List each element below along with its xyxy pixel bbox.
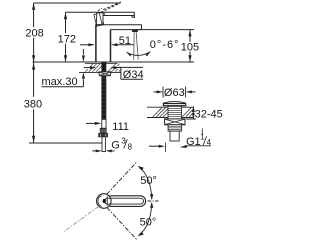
svg-text:51: 51 [119,35,131,47]
arrow down 32-45 [192,113,195,119]
G1 1/4 underline leader [186,145,211,147]
plan view lower-left centerline arm [64,206,99,231]
Ø63 arrow right [192,91,196,93]
drain tube arrow [149,145,159,147]
drain tube extension line [165,143,167,153]
svg-text:172: 172 [58,33,76,45]
drain deck hatching [153,108,194,117]
wire: max.30 underline [42,86,84,88]
dimension max.30 upper arrow [82,49,84,55]
faucet aerator [132,30,139,32]
arrow down 380 bottom [32,136,35,143]
mounting nut [99,72,111,76]
nipple width arrow right [112,150,115,152]
arrow down 172 bottom [64,55,67,62]
arrow up 172 top [64,12,67,19]
drain locking nut [165,119,185,125]
wire: 380 bottom extension line [29,142,102,144]
plan view lever slot [105,198,144,204]
drain deck bottom line [147,117,193,119]
svg-text:50°: 50° [140,175,157,187]
deck hatching [85,63,120,71]
plan view cartridge dot [103,199,106,203]
nipple width arrow left [92,150,95,152]
svg-text:111: 111 [112,121,129,133]
angle arc 0-6 degrees [127,52,150,56]
Ø34 callout left edge [120,67,122,79]
deck bottom line [79,71,121,73]
arrow up 380 top [32,63,35,70]
plan view lower-right swing ray [107,208,137,240]
svg-text:4: 4 [207,138,212,147]
dimension 111 arrow [86,122,95,124]
G3/8 nipple tube [102,137,105,152]
svg-text:Ø34: Ø34 [123,69,144,81]
dimension 32-45 line [186,106,196,119]
plan view upper swing ray [107,163,137,195]
arrow up 208 top [32,3,35,10]
plan view centerline right [148,200,159,202]
water stream [134,32,139,59]
G3/8 threaded block [100,128,106,133]
plan view body circle [97,194,112,209]
svg-text:8: 8 [128,143,133,152]
drain deck top line [147,106,193,108]
threaded shank rod [101,76,106,120]
Ø34 callout underline [121,78,143,80]
wire: 208 top extension line [34,2,121,4]
upper 50 degree arc [139,168,151,199]
svg-text:1: 1 [200,133,205,142]
drain tail tube [170,131,179,141]
svg-text:max.30: max.30 [42,76,78,88]
arrow down 105 bottom [188,55,191,62]
drain body threads [168,106,182,119]
dimension 172 vertical line [65,12,67,62]
faucet column right edge [110,30,112,62]
svg-text:G: G [111,140,120,152]
arrow down 208 bottom [32,55,35,62]
faucet column left edge [95,25,97,62]
arrow up 32-45 [192,106,195,112]
Ø63 extension lines [163,87,186,98]
faucet spout bottom edge [110,29,141,31]
threaded shank rod upper [101,62,106,72]
plan view lever [106,196,146,207]
dimension max.30 lower arrow [82,79,84,87]
wire: 172/lever top line [66,11,135,13]
G3/8 fitting nut [99,134,108,137]
svg-text:105: 105 [181,42,199,54]
faucet raised handle (dashed) [101,2,121,13]
svg-text:32-45: 32-45 [195,109,223,121]
svg-text:208: 208 [25,27,43,39]
dimension 51 right arrow [117,44,134,46]
plan view chord line [106,196,108,206]
dimension 105 vertical line [189,30,191,62]
drain flange cap [164,101,186,103]
dimension 51 left arrow [80,44,89,46]
svg-text:0°-6°: 0°-6° [150,39,180,51]
arrow up 105 top [188,30,191,37]
faucet lever lip [132,16,135,18]
rod lower segment [102,119,106,128]
svg-text:50°: 50° [140,216,157,228]
lower 50 degree arc [139,204,151,235]
Ø63 arrow left [154,91,157,93]
Ø34 callout top line [118,66,144,68]
faucet handle joint [96,13,103,25]
hole diameter arrow left [84,66,90,69]
faucet body top edge [95,24,141,26]
svg-text:Ø63: Ø63 [164,87,185,99]
faucet spout right edge [141,25,143,30]
wire: basin rim reference line y62 [33,61,195,63]
arc arrow left [126,52,131,57]
plan view inner rim arc [98,196,102,207]
deck top line [85,62,118,64]
arc arrow right [146,51,151,56]
faucet handle joint tilted ghost [94,13,104,26]
wire: 105 top extension line [138,29,194,31]
drain tail threaded section [168,125,182,131]
hole diameter arrow right [116,66,120,69]
svg-text:G1: G1 [186,136,201,148]
svg-text:380: 380 [24,99,42,111]
faucet raised handle pivot arc (dashed) [97,8,102,14]
dimension 208/380 vertical line [33,3,35,143]
wire: small vertical leader below 32-45 [201,129,203,135]
faucet lever bar [103,12,134,15]
